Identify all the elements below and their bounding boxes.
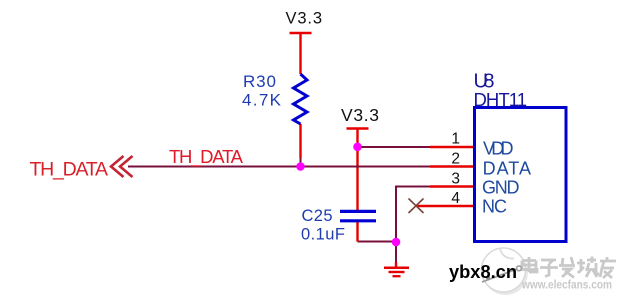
svg-text:VDD: VDD xyxy=(483,139,514,159)
svg-text:2: 2 xyxy=(451,151,460,168)
svg-text:C25: C25 xyxy=(302,207,333,225)
svg-text:ybx8.cn: ybx8.cn xyxy=(449,262,517,282)
svg-text:DHT11: DHT11 xyxy=(474,89,528,110)
svg-text:TH_DATA: TH_DATA xyxy=(169,146,244,168)
svg-text:4: 4 xyxy=(451,190,460,207)
svg-text:V3.3: V3.3 xyxy=(341,105,379,125)
svg-text:NC: NC xyxy=(482,197,507,217)
svg-text:DATA: DATA xyxy=(483,159,531,179)
svg-text:0.1uF: 0.1uF xyxy=(301,226,345,244)
svg-text:TH_DATA: TH_DATA xyxy=(30,159,109,181)
svg-text:www.elecfans.com: www.elecfans.com xyxy=(521,278,612,292)
svg-text:3: 3 xyxy=(451,170,460,187)
svg-text:1: 1 xyxy=(451,131,460,148)
svg-text:4.7K: 4.7K xyxy=(242,91,282,110)
svg-text:R30: R30 xyxy=(243,72,276,91)
svg-text:V3.3: V3.3 xyxy=(286,10,323,28)
svg-text:GND: GND xyxy=(482,177,520,197)
